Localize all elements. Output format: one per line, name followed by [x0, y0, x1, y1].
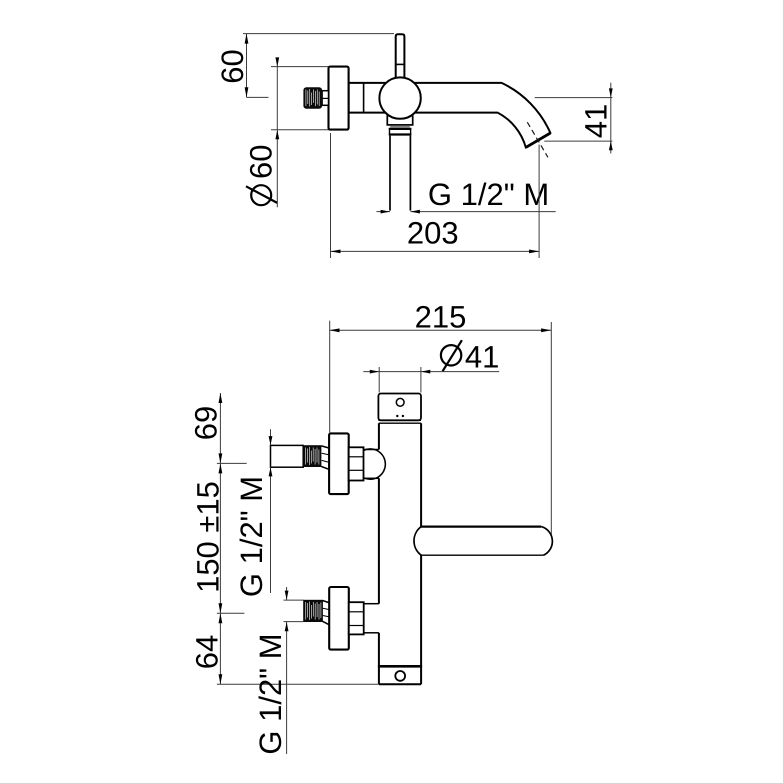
- dashed flow axis at outlet: [527, 122, 548, 157]
- svg-text:41: 41: [578, 104, 613, 138]
- wire: centerline stub at body axis: [247, 96, 269, 98]
- top union: dome joint: [364, 449, 379, 451]
- sphere body: [379, 77, 420, 118]
- top cap: [378, 394, 421, 421]
- wire: tick at 69/150: [217, 462, 247, 464]
- bottom cap: [379, 683, 421, 685]
- outlet pipe (threaded G 1/2): [389, 136, 391, 211]
- top union: wall flange: [329, 433, 349, 494]
- bottom union: wall flange: [329, 587, 349, 650]
- collar below sphere: [387, 108, 412, 125]
- body column left edge: [378, 423, 380, 449]
- top union: eccentric reducer: [321, 446, 329, 448]
- dimension 215 line: [330, 329, 552, 331]
- wire: extension line flange bottom: [271, 129, 329, 131]
- bottom cap hole: [395, 671, 405, 681]
- spout bar (side projection): [414, 527, 552, 556]
- svg-text:215: 215: [415, 300, 467, 335]
- svg-text:69: 69: [189, 406, 224, 440]
- top union: inlet pipe: [271, 445, 304, 467]
- svg-text:G 1/2" M: G 1/2" M: [253, 633, 288, 754]
- dimension top union thread line: [270, 429, 272, 445]
- wall flange (side view): [329, 67, 349, 130]
- bottom union: connection lines: [364, 603, 379, 605]
- wire: extension lines body width (D41): [378, 367, 380, 393]
- label D60 diameter symbol: [251, 185, 271, 205]
- wire: extension line right (215): [550, 322, 552, 536]
- dimension G 1/2" M (top view) line: [376, 211, 390, 213]
- svg-text:60: 60: [215, 49, 250, 83]
- dimension chain 69 / 150 / 64 line: [219, 393, 221, 684]
- label D41: [441, 345, 461, 365]
- wire: extension line from lever top: [243, 33, 394, 35]
- bottom union: knurled thread: [303, 600, 323, 622]
- dimension 60 line: [246, 34, 248, 98]
- wire: tick at 150/64: [217, 612, 245, 614]
- knurled knob: [303, 87, 322, 109]
- lever handle rod: [396, 34, 405, 80]
- bottom union: nut: [349, 602, 364, 634]
- lever joint line: [396, 63, 405, 65]
- top cap hole: [396, 398, 404, 406]
- wire: extension line left (215): [329, 321, 331, 433]
- wire: extension line flange top: [271, 66, 329, 68]
- dimension D60 leader line: [276, 58, 278, 208]
- svg-text:60: 60: [244, 145, 279, 179]
- wire: extension line spout top (41): [535, 97, 613, 99]
- wire: extension line body bottom: [217, 683, 379, 685]
- dimension D41 line: [363, 371, 499, 373]
- svg-text:64: 64: [189, 635, 224, 669]
- spout and body tube: [349, 83, 551, 147]
- dimension bottom union thread line: [286, 587, 288, 600]
- cap separation band: [378, 419, 421, 421]
- wire: extension stubs bottom thread: [284, 599, 304, 601]
- body joint line: [363, 83, 365, 113]
- bottom union: eccentric reducer: [323, 601, 331, 604]
- svg-text:G 1/2" M: G 1/2" M: [428, 177, 549, 212]
- body column right edge: [420, 423, 422, 526]
- grey gasket band: [390, 126, 410, 128]
- dimension 41 line: [610, 83, 612, 154]
- svg-text:203: 203: [407, 216, 459, 251]
- spout outlet cut face: [526, 133, 551, 147]
- svg-text:41: 41: [465, 339, 499, 374]
- top cap dots: [396, 415, 398, 417]
- wire: extension line outlet centre (41): [544, 140, 612, 142]
- dimension 203 line: [331, 250, 540, 252]
- top union: knurled thread: [303, 445, 321, 467]
- aerator ring: [389, 128, 391, 135]
- body bottom thick line: [378, 665, 422, 668]
- wire: extension line outlet (203/41): [538, 145, 540, 258]
- top union: nut: [349, 447, 364, 480]
- wire: extension line wall plane (203): [330, 133, 332, 258]
- knurled knob stem: [322, 91, 328, 106]
- svg-text:150 ±15: 150 ±15: [190, 481, 225, 593]
- svg-text:G 1/2" M: G 1/2" M: [234, 476, 269, 597]
